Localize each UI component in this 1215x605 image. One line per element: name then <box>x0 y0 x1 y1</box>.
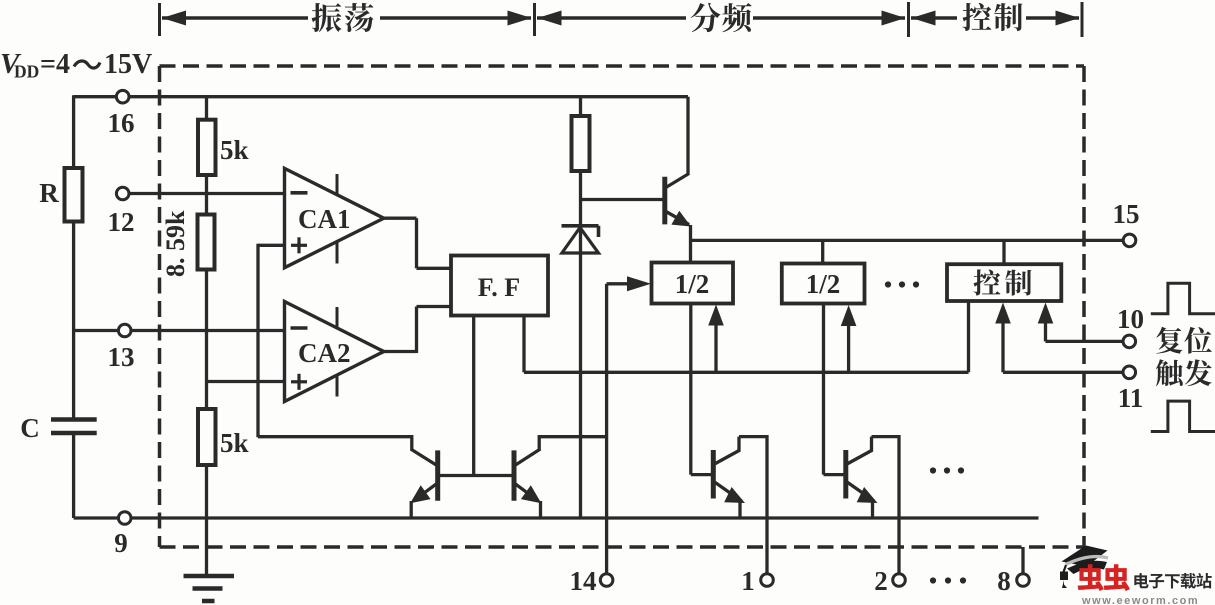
ground rail (pin 9 row) <box>131 516 1039 519</box>
ground <box>184 574 235 579</box>
svg-text:16: 16 <box>108 108 135 138</box>
svg-text:9: 9 <box>114 528 128 558</box>
wire 8.59k down <box>205 270 208 410</box>
svg-text:www.eeworm.com: www.eeworm.com <box>1081 595 1199 605</box>
wire Q4 emitter to rail <box>738 501 741 518</box>
transistor Q5 <box>843 450 848 499</box>
arrow trigger into control <box>1001 321 1004 372</box>
trigger pulse waveform <box>1151 401 1215 431</box>
resistor internal 5k (bias) <box>579 97 582 116</box>
label 复位 (reset) <box>1156 327 1182 354</box>
section tick marks <box>158 3 161 36</box>
pin 16 terminal <box>116 90 129 103</box>
wire Q2 emitter to rail <box>410 501 413 518</box>
section arrow 分频 (divider) <box>537 16 686 19</box>
resistor R <box>65 168 83 222</box>
wire C to pin9 row <box>72 433 75 518</box>
svg-text:5k: 5k <box>220 135 249 165</box>
svg-text:10: 10 <box>1117 304 1144 334</box>
wire Q1 collector to top rail <box>686 97 689 175</box>
wire CA1 output <box>384 217 417 220</box>
arrow reset into control <box>1044 321 1047 341</box>
svg-text:14: 14 <box>570 566 597 596</box>
svg-text:4: 4 <box>56 49 70 80</box>
svg-text:12: 12 <box>108 207 135 237</box>
pin 1 terminal <box>761 574 774 587</box>
logo 虫虫 characters <box>1078 564 1104 591</box>
svg-text:C: C <box>20 413 40 443</box>
section arrow 振荡 (oscillation) <box>162 16 308 19</box>
wire F.F output down <box>522 316 525 373</box>
svg-text:15V: 15V <box>104 49 152 80</box>
pin 10 terminal <box>1123 335 1136 348</box>
svg-text:DD: DD <box>14 62 39 82</box>
resistor 8.59k <box>198 215 215 270</box>
capacitor C <box>51 417 97 422</box>
wire R to C <box>72 222 75 419</box>
divider block 1/2 (first) <box>652 263 734 304</box>
pin 12 terminal <box>116 187 129 200</box>
wire top rail to 5k <box>205 97 208 120</box>
wire mirror bases <box>438 474 514 477</box>
wire divider tap to CA2 noninverting input <box>207 380 285 383</box>
wire Q4 collector to pin 1 <box>737 437 740 451</box>
transistor Q3 <box>512 450 517 500</box>
zener diode D1 <box>562 224 599 228</box>
wire VDD to pin16 <box>74 95 117 98</box>
pin 14 terminal <box>600 574 613 587</box>
dots further output stages <box>930 467 936 473</box>
wire reset pin 10 <box>1046 340 1124 343</box>
wire Q5 collector to pin 2 <box>870 437 873 451</box>
wire 5k lower to ground <box>205 465 208 576</box>
pin 11 terminal <box>1123 366 1136 379</box>
svg-text:1/2: 1/2 <box>806 269 841 299</box>
wire chain into control <box>967 301 970 372</box>
svg-text:5k: 5k <box>220 428 249 458</box>
label 控制 header <box>963 3 992 31</box>
wire RC node to pin 13 <box>74 329 119 332</box>
resistor 5k lower <box>198 409 216 465</box>
label 振荡 <box>312 3 342 32</box>
svg-text:CA2: CA2 <box>298 338 351 368</box>
svg-text:=: = <box>40 49 56 80</box>
wire pin12 to CA1 inverting input <box>129 192 285 195</box>
svg-text:8. 59k: 8. 59k <box>161 210 190 277</box>
pin 15 terminal <box>1123 234 1136 247</box>
dots between pin2 and pin8 <box>930 577 936 583</box>
wire F.F output to mirror bases <box>472 316 475 476</box>
wire divider1 output down <box>689 304 692 475</box>
op-amp CA2 <box>285 302 384 402</box>
label 分频 <box>691 3 721 32</box>
arrow reset into divider 2 <box>847 321 850 372</box>
node CA1+ feedback vertical <box>256 244 259 437</box>
control block 控制 box <box>1002 240 1005 264</box>
wire CA2 output <box>384 350 417 353</box>
svg-text:11: 11 <box>1118 383 1144 413</box>
logo graduation cap <box>1062 546 1108 567</box>
pin 9 terminal <box>118 512 131 525</box>
svg-text:13: 13 <box>108 342 135 372</box>
label 触发 (trigger) <box>1156 359 1183 386</box>
wire time-base to pin 14 <box>605 284 608 574</box>
label 控制 box <box>973 269 1000 295</box>
wire to pin 9 <box>74 516 119 519</box>
svg-text:R: R <box>39 178 59 208</box>
transistor Q4 <box>711 450 716 499</box>
svg-text:F. F: F. F <box>478 273 520 302</box>
pin 8 terminal <box>1017 574 1030 587</box>
wire Q3 emitter to rail <box>539 501 542 518</box>
wire CA1 noninverting input <box>258 244 285 247</box>
wire clock into divider 1 (arrow) <box>607 282 630 285</box>
wire time-base rail to pin 15 <box>691 239 1124 242</box>
svg-text:1/2: 1/2 <box>675 269 710 299</box>
section arrow 控制 (control) <box>911 16 957 19</box>
wire zener to ground rail <box>579 227 582 518</box>
pin 13 terminal <box>118 324 131 337</box>
wire VDD down to R <box>72 95 75 168</box>
wire F.F to divider chain (long horizontal) <box>524 371 969 374</box>
logo 电子下载站 text <box>1134 573 1148 588</box>
svg-text:CA1: CA1 <box>298 204 351 234</box>
divider block 1/2 (second) <box>821 240 824 263</box>
wire resistor to zener <box>579 171 582 227</box>
op-amp CA1 <box>285 168 384 267</box>
wire pin16 into IC (top rail) <box>129 95 688 98</box>
arrow reset into divider 1 <box>714 321 717 372</box>
transistor Q1 <box>662 177 667 225</box>
wire trigger pin 11 <box>1003 371 1123 374</box>
dots between dividers <box>885 281 891 287</box>
wire Q1 emitter down to divider <box>689 225 692 263</box>
flip-flop F.F box <box>451 256 548 316</box>
resistor 5k upper <box>198 120 216 175</box>
wire pin13 to CA2 inverting input <box>131 329 285 332</box>
reset pulse waveform <box>1151 283 1215 313</box>
wire divider2 output down <box>822 304 825 475</box>
wire Q5 emitter to rail <box>871 501 874 518</box>
pin 2 terminal <box>893 574 906 587</box>
wire pin 8 stub <box>1021 547 1024 574</box>
svg-text:8: 8 <box>997 566 1011 596</box>
transistor Q2 <box>435 450 440 500</box>
wire 5k to 8.59k <box>205 175 208 215</box>
svg-text:1: 1 <box>741 566 755 596</box>
svg-text:2: 2 <box>874 566 888 596</box>
dashed IC boundary box <box>160 64 1085 68</box>
svg-text:15: 15 <box>1113 199 1140 229</box>
